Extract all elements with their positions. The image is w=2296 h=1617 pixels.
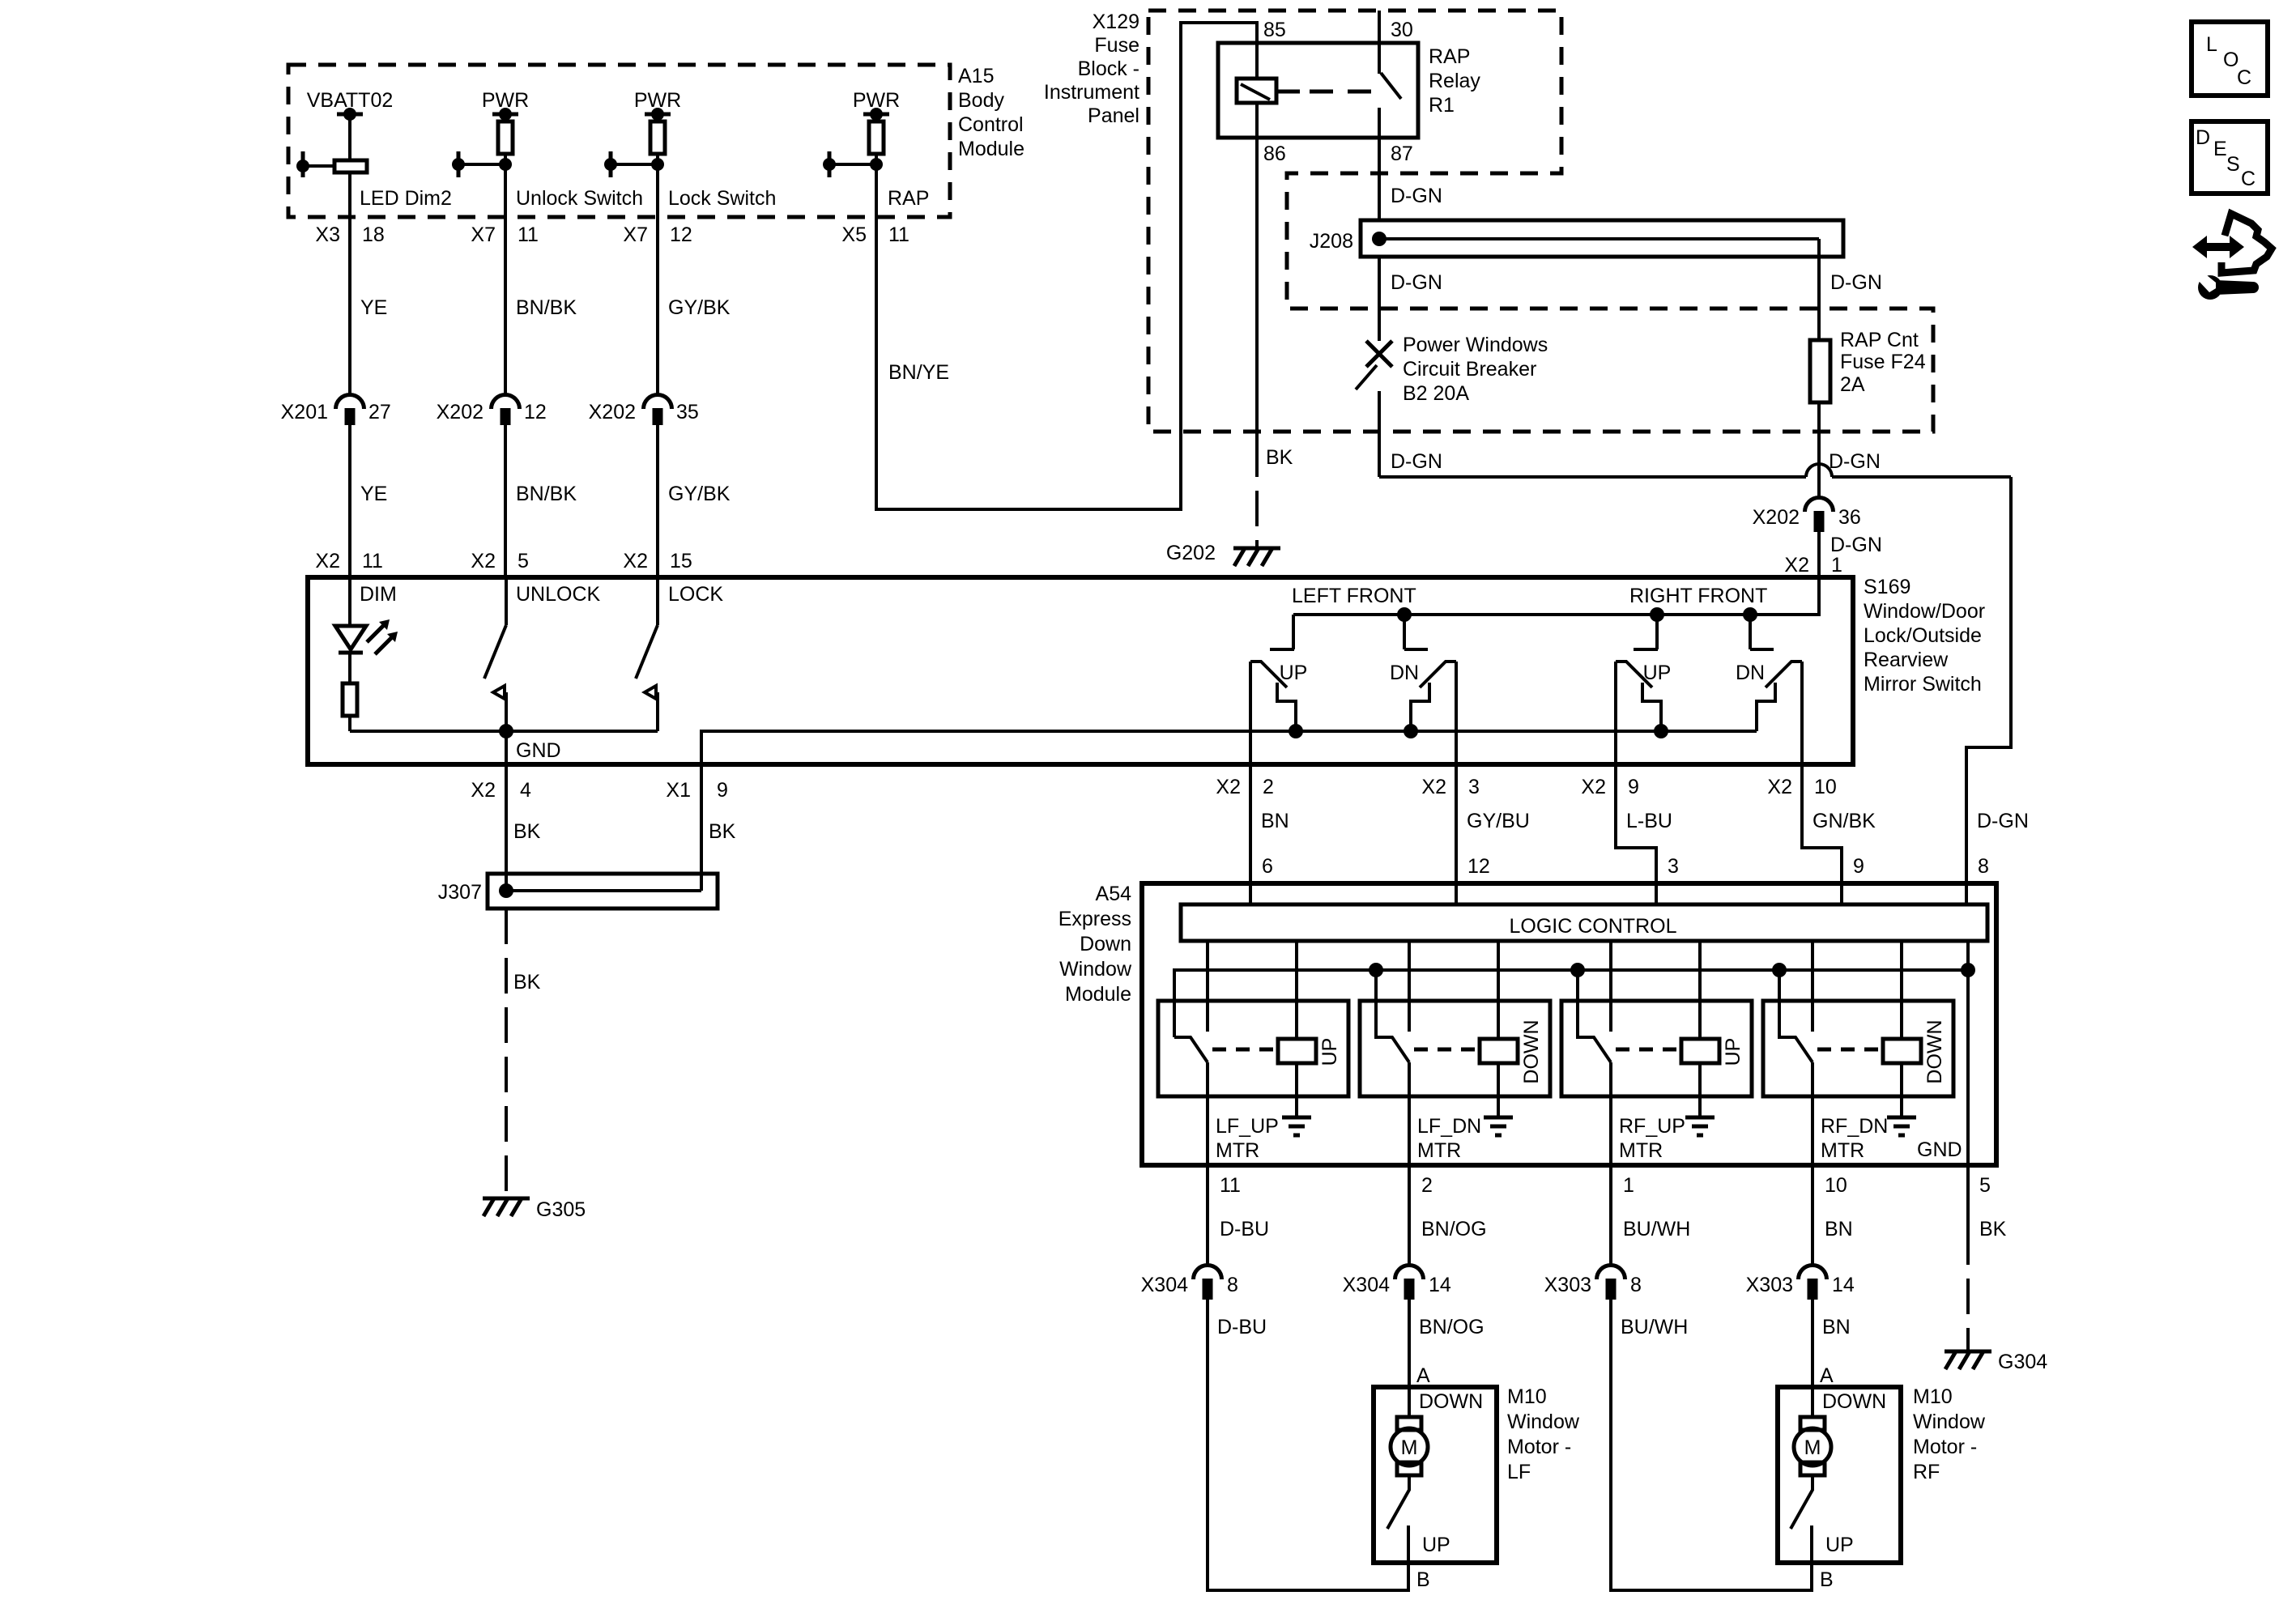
svg-text:X201: X201: [281, 401, 328, 423]
svg-text:X2: X2: [1421, 776, 1446, 798]
svg-text:36: 36: [1838, 506, 1861, 529]
svg-text:A: A: [1416, 1364, 1430, 1387]
wire D-GN right side down to A54 pin 8: [1966, 477, 2011, 904]
module X129 Fuse Block - Instrument Panel dashed outline: [1148, 11, 1933, 432]
connector X202 35: [644, 395, 672, 410]
motor element LF: [1408, 1387, 1411, 1417]
terminal tick LED Dim2: [301, 151, 305, 177]
svg-text:LOGIC CONTROL: LOGIC CONTROL: [1510, 915, 1677, 938]
svg-text:X7: X7: [623, 223, 648, 246]
icon double arrow: [2192, 236, 2244, 258]
wire GY/BK lower: [656, 425, 659, 577]
svg-text:DOWN: DOWN: [1419, 1390, 1483, 1413]
wire BN/BK upper: [504, 154, 507, 395]
svg-text:X202: X202: [437, 401, 483, 423]
resistor DIM: [348, 653, 351, 683]
svg-text:D-GN: D-GN: [1830, 271, 1882, 294]
svg-text:4: 4: [520, 779, 531, 802]
LED arrows: [367, 625, 384, 642]
relay LF_DN link dashed: [1414, 1048, 1475, 1052]
wire GY/BU S169 pin3 to A54: [1455, 764, 1458, 904]
svg-text:30: 30: [1391, 19, 1413, 41]
svg-text:X304: X304: [1141, 1274, 1188, 1296]
svg-text:RAP: RAP: [1429, 45, 1470, 68]
wire BN/YE from RAP output: [876, 23, 1257, 509]
svg-text:D-GN: D-GN: [1391, 450, 1442, 473]
wire D-GN to S169 pin 1: [1817, 532, 1821, 577]
svg-text:MTR: MTR: [1417, 1139, 1461, 1162]
svg-text:MTR: MTR: [1216, 1139, 1259, 1162]
icon LOC box: [2192, 22, 2268, 96]
relay coil R1: [1255, 43, 1259, 79]
svg-text:11: 11: [518, 223, 539, 246]
svg-text:MTR: MTR: [1619, 1139, 1663, 1162]
svg-text:BN: BN: [1261, 810, 1289, 832]
motor M10 Window Motor - RF box: [1778, 1387, 1901, 1563]
svg-text:S: S: [2226, 153, 2240, 176]
svg-text:L-BU: L-BU: [1626, 810, 1672, 832]
svg-text:14: 14: [1832, 1274, 1855, 1296]
svg-text:M10: M10: [1913, 1385, 1953, 1408]
connector X201 27: [336, 395, 364, 410]
svg-text:X2: X2: [1784, 554, 1809, 577]
svg-text:Fuse: Fuse: [1094, 34, 1139, 57]
svg-text:15: 15: [670, 550, 692, 572]
wire D-GN below fuse: [1817, 402, 1821, 498]
relay RF_DN link dashed: [1817, 1048, 1878, 1052]
svg-text:RIGHT FRONT: RIGHT FRONT: [1629, 585, 1767, 607]
wire GY/BK upper: [656, 154, 659, 395]
svg-text:R1: R1: [1429, 94, 1455, 117]
svg-text:9: 9: [1628, 776, 1639, 798]
switch S169 Window/Door Lock/Outside Rearview Mirror Switch box: [308, 577, 1853, 764]
LED dim indicator: [348, 577, 351, 626]
fuse F24 2A: [1810, 340, 1830, 402]
logic control bar: [1181, 904, 1987, 941]
svg-text:D-BU: D-BU: [1220, 1218, 1269, 1240]
svg-text:X304: X304: [1343, 1274, 1390, 1296]
svg-text:UP: UP: [1825, 1534, 1854, 1556]
svg-text:B: B: [1416, 1568, 1430, 1591]
svg-text:X2: X2: [1581, 776, 1606, 798]
svg-text:BU/WH: BU/WH: [1621, 1316, 1688, 1338]
svg-text:11: 11: [1220, 1174, 1241, 1197]
icon DESC box: [2192, 121, 2268, 194]
svg-text:LF_DN: LF_DN: [1417, 1115, 1481, 1138]
svg-text:D-GN: D-GN: [1829, 450, 1881, 473]
wire 87 to circuit breaker: [1378, 257, 1381, 341]
svg-text:86: 86: [1263, 143, 1286, 165]
svg-text:BN: BN: [1825, 1218, 1853, 1240]
svg-text:12: 12: [670, 223, 692, 246]
svg-text:BN/OG: BN/OG: [1421, 1218, 1487, 1240]
svg-text:BU/WH: BU/WH: [1623, 1218, 1690, 1240]
wire D-BU lower loop to LF motor B: [1208, 1300, 1408, 1590]
wire D-GN from J208 to fuse F24: [1817, 239, 1821, 340]
svg-text:Motor -: Motor -: [1913, 1436, 1977, 1458]
svg-text:DOWN: DOWN: [1923, 1019, 1946, 1083]
terminal tick RAP: [828, 151, 832, 177]
connector X202 36: [1805, 498, 1834, 513]
svg-text:UP: UP: [1422, 1534, 1450, 1556]
svg-text:14: 14: [1429, 1274, 1451, 1296]
ground G202: [1233, 548, 1280, 566]
svg-text:L: L: [2206, 33, 2217, 56]
LED Dim2 driver box: [334, 160, 367, 172]
svg-text:X303: X303: [1544, 1274, 1591, 1296]
svg-text:DOWN: DOWN: [1520, 1019, 1543, 1083]
wire YE upper: [348, 172, 351, 395]
icon wrench: [2198, 275, 2222, 300]
svg-text:BK: BK: [513, 971, 541, 994]
resistor PWR lock: [656, 114, 659, 121]
wire tick to lock wire: [611, 163, 658, 166]
svg-text:GND: GND: [516, 739, 561, 762]
svg-text:8: 8: [1978, 855, 1989, 878]
relay LF_UP switch: [1174, 941, 1208, 1165]
svg-text:X2: X2: [623, 550, 648, 572]
svg-text:A15: A15: [958, 65, 994, 87]
svg-text:9: 9: [1853, 855, 1864, 878]
svg-text:GY/BK: GY/BK: [668, 483, 731, 505]
relay U R1 RAP Relay box: [1218, 43, 1418, 138]
svg-text:YE: YE: [360, 483, 387, 505]
connector X304 14: [1395, 1266, 1424, 1280]
connector X303 8: [1597, 1266, 1625, 1280]
svg-text:B2 20A: B2 20A: [1403, 382, 1469, 405]
svg-text:X303: X303: [1746, 1274, 1793, 1296]
relay LF_UP coil UP: [1295, 941, 1298, 1117]
svg-text:27: 27: [368, 401, 391, 423]
svg-text:RAP: RAP: [888, 187, 929, 210]
svg-text:RAP Cnt: RAP Cnt: [1840, 329, 1919, 351]
svg-text:DN: DN: [1736, 662, 1765, 684]
svg-text:Body: Body: [958, 89, 1004, 112]
svg-text:5: 5: [518, 550, 529, 572]
wire tick to LED box: [303, 164, 334, 168]
wire BN/OG lower to LF motor A: [1408, 1300, 1411, 1387]
svg-text:LF: LF: [1507, 1461, 1531, 1483]
svg-text:X7: X7: [471, 223, 496, 246]
svg-text:LOCK: LOCK: [668, 583, 723, 606]
icon door outline: [2221, 214, 2272, 273]
svg-text:2: 2: [1263, 776, 1274, 798]
svg-text:Mirror Switch: Mirror Switch: [1864, 673, 1982, 696]
relay LF_UP box: [1158, 1001, 1348, 1096]
svg-text:D-GN: D-GN: [1391, 185, 1442, 207]
svg-text:S169: S169: [1864, 576, 1910, 598]
svg-text:GN/BK: GN/BK: [1813, 810, 1876, 832]
svg-text:Control: Control: [958, 113, 1024, 136]
svg-text:GND: GND: [1917, 1138, 1962, 1161]
ground RF_UP coil: [1685, 1117, 1715, 1135]
module A15 Body Control Module dashed box: [288, 65, 950, 217]
svg-text:G304: G304: [1998, 1351, 2047, 1373]
svg-text:YE: YE: [360, 296, 387, 319]
svg-text:D-GN: D-GN: [1830, 534, 1882, 556]
terminal tick unlock: [457, 151, 461, 177]
svg-text:X1: X1: [666, 779, 691, 802]
relay RF_DN box: [1763, 1001, 1953, 1096]
ground G304: [1945, 1351, 1991, 1369]
svg-text:Module: Module: [958, 138, 1024, 160]
connector X303 14: [1799, 1266, 1827, 1280]
svg-text:8: 8: [1630, 1274, 1642, 1296]
svg-text:UP: UP: [1318, 1038, 1341, 1066]
switch LF UP: [1250, 615, 1296, 764]
svg-text:C: C: [2241, 168, 2256, 190]
svg-text:UP: UP: [1643, 662, 1672, 684]
wire window switch return: [701, 731, 1757, 891]
svg-text:C: C: [2237, 66, 2251, 89]
relay LF_DN coil DOWN: [1497, 941, 1500, 1117]
switch UNLOCK: [505, 577, 508, 625]
svg-text:UP: UP: [1280, 662, 1308, 684]
svg-text:12: 12: [1467, 855, 1490, 878]
relay RF_UP box: [1561, 1001, 1752, 1096]
ground LF_UP coil: [1282, 1117, 1311, 1135]
wire BN/BK lower: [504, 425, 507, 577]
wire BN lower to RF motor A: [1811, 1300, 1814, 1387]
switch LF motor UP contact: [1387, 1475, 1409, 1563]
svg-text:Window: Window: [1913, 1411, 1986, 1433]
splice J208 bus bar: [1361, 220, 1843, 257]
svg-text:Rearview: Rearview: [1864, 649, 1949, 671]
svg-text:85: 85: [1263, 19, 1286, 41]
svg-text:RF: RF: [1913, 1461, 1940, 1483]
svg-text:BN/OG: BN/OG: [1419, 1316, 1485, 1338]
wire BK pin4 to J307: [505, 764, 508, 891]
svg-text:Power Windows: Power Windows: [1403, 334, 1548, 356]
svg-text:X129: X129: [1093, 11, 1139, 33]
svg-text:LF_UP: LF_UP: [1216, 1115, 1279, 1138]
wire DIM return: [350, 730, 658, 733]
svg-text:3: 3: [1468, 776, 1480, 798]
svg-text:LEFT FRONT: LEFT FRONT: [1292, 585, 1416, 607]
svg-text:Fuse F24: Fuse F24: [1840, 351, 1926, 373]
ground G305: [483, 1198, 530, 1216]
svg-text:MTR: MTR: [1821, 1139, 1864, 1162]
svg-text:LED Dim2: LED Dim2: [360, 187, 452, 210]
svg-text:BK: BK: [1979, 1218, 2007, 1240]
svg-text:Express: Express: [1059, 908, 1131, 930]
svg-text:Module: Module: [1065, 983, 1131, 1006]
svg-text:1: 1: [1831, 554, 1842, 577]
svg-text:DIM: DIM: [360, 583, 397, 606]
svg-text:BK: BK: [1266, 446, 1293, 469]
wire tick to RAP wire: [829, 163, 876, 166]
svg-text:5: 5: [1979, 1174, 1991, 1197]
relay RF_DN switch: [1779, 941, 1813, 1165]
svg-text:Motor -: Motor -: [1507, 1436, 1571, 1458]
wire BN S169 pin2 to A54: [1249, 764, 1252, 904]
svg-text:Window: Window: [1059, 958, 1132, 981]
svg-text:DN: DN: [1390, 662, 1419, 684]
svg-text:BN: BN: [1822, 1316, 1851, 1338]
svg-text:Window: Window: [1507, 1411, 1580, 1433]
resistor PWR unlock: [504, 114, 507, 121]
ground RF_DN coil: [1887, 1117, 1916, 1135]
relay RF_DN coil DOWN: [1900, 941, 1903, 1117]
wire GN/BK S169 pin10 to A54: [1802, 764, 1842, 904]
wire YE lower: [348, 425, 351, 577]
connector X304 8: [1194, 1266, 1222, 1280]
wire BK dashed to G304: [1966, 1229, 1970, 1350]
wire BK dashed to G305: [505, 908, 508, 1197]
svg-text:9: 9: [717, 779, 728, 802]
svg-text:GY/BU: GY/BU: [1467, 810, 1530, 832]
svg-text:2: 2: [1421, 1174, 1433, 1197]
svg-text:GY/BK: GY/BK: [668, 296, 731, 319]
svg-text:8: 8: [1227, 1274, 1238, 1296]
connector X202 12: [492, 395, 520, 410]
switch LF DN: [1404, 615, 1456, 764]
svg-text:BK: BK: [709, 820, 736, 843]
svg-text:35: 35: [676, 401, 699, 423]
svg-text:11: 11: [362, 550, 383, 572]
svg-text:J307: J307: [438, 881, 482, 904]
wire D-GN feed inside S169: [1293, 577, 1819, 615]
svg-text:10: 10: [1814, 776, 1837, 798]
wire BN/OG upper: [1408, 1165, 1411, 1266]
wire BK pin 5: [1966, 1165, 1970, 1229]
svg-text:B: B: [1820, 1568, 1834, 1591]
svg-text:2A: 2A: [1840, 373, 1865, 396]
wire GND internal to pin 5: [1966, 941, 1970, 1165]
svg-text:D-GN: D-GN: [1391, 271, 1442, 294]
svg-text:M: M: [1401, 1436, 1418, 1459]
splice J307 bus bar: [488, 874, 718, 908]
svg-text:M10: M10: [1507, 1385, 1547, 1408]
wire BN upper: [1811, 1165, 1814, 1266]
svg-text:X2: X2: [471, 550, 496, 572]
svg-text:X2: X2: [1767, 776, 1792, 798]
svg-text:Down: Down: [1080, 933, 1131, 955]
svg-text:1: 1: [1623, 1174, 1634, 1197]
svg-text:Instrument: Instrument: [1044, 81, 1139, 104]
svg-text:A54: A54: [1096, 883, 1132, 905]
ground LF_DN coil: [1484, 1117, 1513, 1135]
svg-text:J208: J208: [1310, 230, 1353, 253]
svg-text:D-GN: D-GN: [1977, 810, 2029, 832]
svg-text:X2: X2: [315, 550, 340, 572]
svg-text:11: 11: [888, 223, 909, 246]
switch RF motor UP contact: [1791, 1475, 1813, 1563]
svg-text:RF_DN: RF_DN: [1821, 1115, 1888, 1138]
svg-text:BN/BK: BN/BK: [516, 296, 577, 319]
wire D-GN breaker output run with crossover bump: [1379, 475, 1806, 479]
svg-text:Window/Door: Window/Door: [1864, 600, 1985, 623]
svg-text:87: 87: [1391, 143, 1413, 165]
svg-text:DOWN: DOWN: [1822, 1390, 1886, 1413]
svg-text:3: 3: [1668, 855, 1679, 878]
svg-text:D-BU: D-BU: [1217, 1316, 1267, 1338]
svg-text:UP: UP: [1722, 1038, 1744, 1066]
svg-text:12: 12: [524, 401, 547, 423]
svg-text:M: M: [1804, 1436, 1821, 1459]
motor M10 Window Motor - LF box: [1374, 1387, 1497, 1563]
relay link dashed: [1276, 90, 1300, 94]
relay LF_DN switch: [1376, 941, 1409, 1165]
wire BU/WH lower loop to RF motor B: [1611, 1300, 1812, 1590]
relay LF_DN box: [1360, 1001, 1550, 1096]
svg-text:6: 6: [1262, 855, 1273, 878]
svg-text:BN/YE: BN/YE: [888, 361, 949, 384]
svg-text:Block -: Block -: [1078, 57, 1139, 80]
svg-text:10: 10: [1825, 1174, 1847, 1197]
svg-text:BN/BK: BN/BK: [516, 483, 577, 505]
svg-text:Unlock Switch: Unlock Switch: [516, 187, 643, 210]
relay RF_UP link dashed: [1616, 1048, 1676, 1052]
svg-text:X2: X2: [1216, 776, 1241, 798]
wire BK dashed to G202: [1255, 441, 1259, 547]
circuit breaker B2 20A: [1366, 341, 1392, 367]
svg-text:X5: X5: [841, 223, 867, 246]
switch RF DN: [1750, 615, 1802, 764]
svg-text:E: E: [2213, 138, 2227, 160]
motor element RF: [1811, 1387, 1814, 1417]
relay LF_UP link dashed: [1212, 1048, 1273, 1052]
wire 86 to ground: [1255, 138, 1259, 441]
wire D-BU upper: [1206, 1165, 1209, 1266]
svg-text:D: D: [2196, 126, 2210, 149]
relay RF_UP switch: [1578, 941, 1611, 1165]
svg-text:X2: X2: [471, 779, 496, 802]
svg-text:G305: G305: [536, 1198, 586, 1221]
svg-text:RF_UP: RF_UP: [1619, 1115, 1685, 1138]
svg-text:Circuit Breaker: Circuit Breaker: [1403, 358, 1536, 381]
svg-text:UNLOCK: UNLOCK: [516, 583, 601, 606]
relay switch contact 30-87: [1378, 11, 1381, 74]
svg-text:BK: BK: [513, 820, 541, 843]
svg-text:Panel: Panel: [1088, 104, 1139, 127]
wire tick to unlock wire: [458, 163, 505, 166]
resistor PWR RAP: [875, 114, 878, 121]
svg-text:Lock/Outside: Lock/Outside: [1864, 624, 1982, 647]
svg-text:Lock Switch: Lock Switch: [668, 187, 776, 210]
wire VBATT02 to LED Dim2: [348, 114, 351, 160]
svg-text:X3: X3: [315, 223, 340, 246]
svg-text:Relay: Relay: [1429, 70, 1480, 92]
wire BU/WH upper: [1609, 1165, 1612, 1266]
switch LOCK: [656, 577, 659, 625]
svg-text:18: 18: [362, 223, 385, 246]
switch RF UP: [1616, 615, 1661, 764]
wire L-BU S169 pin9 to A54: [1616, 764, 1656, 904]
wire relay common feed: [1174, 970, 1968, 1037]
relay RF_UP coil UP: [1698, 941, 1702, 1117]
svg-text:A: A: [1820, 1364, 1834, 1387]
svg-text:X202: X202: [1753, 506, 1800, 529]
svg-text:G202: G202: [1166, 542, 1216, 564]
terminal tick lock: [609, 151, 613, 177]
module A54 Express Down Window Module box: [1142, 883, 1996, 1165]
svg-text:X202: X202: [589, 401, 636, 423]
